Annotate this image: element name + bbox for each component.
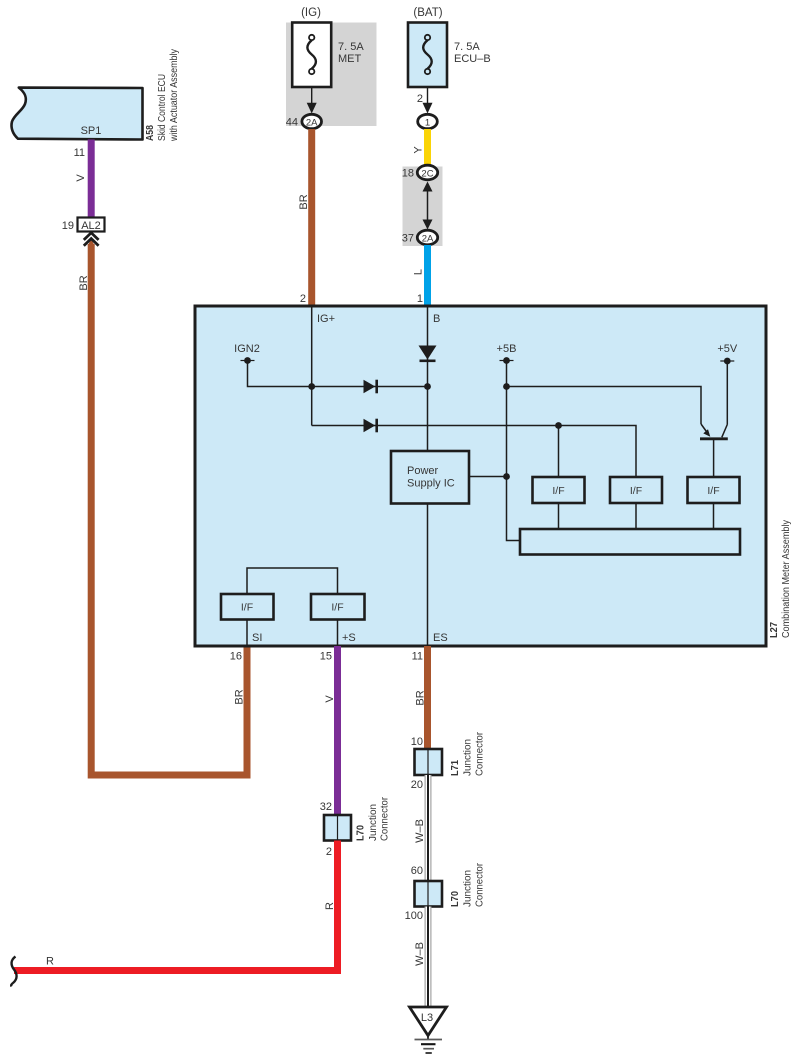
wire V from +S pin 15 — [334, 646, 341, 815]
svg-text:L70: L70 — [355, 825, 367, 841]
connector AL2 pin 19 — [62, 218, 105, 233]
diode D3 on B line — [419, 346, 437, 361]
svg-text:11: 11 — [74, 147, 85, 159]
transistor Q1 — [700, 424, 728, 477]
diode D1 — [364, 380, 377, 394]
wire +5B to transistor base — [507, 387, 702, 425]
svg-text:16: 16 — [230, 651, 242, 663]
svg-text:19: 19 — [62, 220, 74, 232]
junction block gray panel (IG) — [286, 23, 377, 127]
wire second diode row — [312, 426, 636, 478]
svg-text:B: B — [433, 313, 440, 325]
fuse MET 7.5A — [292, 23, 364, 88]
svg-text:7. 5A: 7. 5A — [338, 41, 364, 53]
svg-text:60: 60 — [411, 865, 423, 877]
svg-text:Supply IC: Supply IC — [407, 478, 455, 490]
connector 2A pin 37 — [402, 230, 438, 245]
connector SP1 Skid Control ECU box — [12, 88, 143, 140]
svg-text:(BAT): (BAT) — [413, 7, 442, 19]
wire W-B upper — [425, 775, 432, 881]
svg-text:BR: BR — [234, 689, 246, 704]
svg-text:37: 37 — [402, 233, 414, 245]
label L71 Junction Connector — [449, 732, 485, 776]
svg-text:L3: L3 — [421, 1012, 433, 1024]
svg-text:BR: BR — [298, 194, 310, 209]
svg-text:L70: L70 — [449, 891, 461, 907]
node +5B — [497, 343, 517, 364]
wire BR from MET fuse to IG+ — [308, 129, 315, 306]
svg-text:L27: L27 — [768, 622, 780, 638]
svg-text:2: 2 — [417, 93, 423, 105]
wire +5B vertical — [507, 361, 521, 541]
junction dot on B line — [424, 383, 431, 390]
fuse ECU-B 7.5A — [408, 23, 491, 88]
label A58 Skid Control ECU with Actuator Assembly — [144, 48, 180, 141]
wire R from L70 — [14, 841, 338, 971]
wire link down to second row — [311, 387, 313, 426]
node +5V — [717, 343, 738, 364]
label L27 Combination Meter Assembly — [768, 519, 792, 638]
svg-text:+S: +S — [342, 632, 356, 644]
wire from IGN2 to B line — [248, 361, 428, 387]
wire BR left (from AL2 down and to pin 16) — [88, 239, 247, 776]
svg-text:W–B: W–B — [414, 819, 426, 843]
svg-text:10: 10 — [411, 736, 423, 748]
wire power supply IC to +5B line — [469, 476, 507, 478]
svg-text:ES: ES — [433, 632, 448, 644]
svg-text:32: 32 — [320, 801, 332, 813]
ground symbol — [415, 1036, 443, 1054]
I/F box left 1 — [221, 594, 274, 620]
svg-text:I/F: I/F — [707, 485, 719, 497]
svg-text:ECU–B: ECU–B — [454, 53, 491, 65]
arrows between 2C and 2A — [423, 182, 433, 230]
svg-text:Skid Control ECU: Skid Control ECU — [156, 74, 168, 141]
I/F box 1 — [533, 477, 585, 503]
svg-text:Connector: Connector — [473, 863, 485, 907]
wire ES internal (below power supply IC) — [427, 504, 429, 646]
svg-text:IGN2: IGN2 — [234, 343, 260, 355]
svg-text:with Actuator Assembly: with Actuator Assembly — [168, 48, 180, 141]
svg-text:L71: L71 — [449, 760, 461, 776]
I/F box left 2 — [311, 594, 365, 620]
svg-text:A58: A58 — [144, 125, 156, 141]
svg-text:1: 1 — [425, 117, 430, 128]
svg-text:2A: 2A — [306, 117, 318, 128]
svg-text:I/F: I/F — [331, 602, 343, 614]
svg-text:AL2: AL2 — [81, 220, 101, 232]
svg-text:44: 44 — [286, 117, 298, 129]
junction connector L71 — [415, 749, 443, 775]
svg-text:20: 20 — [411, 779, 423, 791]
I/F box 3 — [688, 477, 740, 503]
svg-text:BR: BR — [415, 690, 427, 705]
wire V from SP1 pin 11 — [88, 140, 95, 218]
svg-text:1: 1 — [417, 293, 423, 305]
junction dot +5B upper — [503, 383, 510, 390]
svg-text:V: V — [324, 695, 336, 703]
junction dot +5B lower — [503, 473, 510, 480]
wire and arrow from fuse MET — [307, 87, 317, 114]
svg-text:100: 100 — [405, 910, 423, 922]
svg-text:(IG): (IG) — [301, 7, 321, 19]
junction connector L70 (lower) — [415, 881, 443, 907]
svg-text:I/F: I/F — [241, 602, 253, 614]
wire IG+ internal — [311, 307, 313, 387]
junction block gray panel 2C/2A — [403, 167, 443, 247]
svg-text:2C: 2C — [421, 168, 433, 179]
node IGN2 — [234, 343, 260, 364]
junction dot branch to I/F 1 — [555, 422, 562, 429]
wire I/F left 2 to +S pin — [337, 620, 339, 646]
svg-text:15: 15 — [320, 651, 332, 663]
label L70 Junction Connector — [449, 863, 485, 907]
svg-text:Junction: Junction — [462, 739, 474, 776]
svg-text:SP1: SP1 — [81, 125, 102, 137]
svg-text:Power: Power — [407, 465, 439, 477]
wire I/F left 1 to SI pin — [246, 620, 248, 646]
svg-text:Junction: Junction — [462, 870, 474, 907]
svg-text:Combination Meter Assembly: Combination Meter Assembly — [780, 519, 792, 638]
I/F box 2 — [610, 477, 662, 503]
ground L3 triangle — [410, 1007, 447, 1036]
connector 2A pin 44 (meter) — [286, 114, 322, 128]
wire W-B lower — [425, 907, 432, 1008]
svg-text:Junction: Junction — [367, 804, 379, 841]
svg-text:2A: 2A — [422, 233, 434, 244]
svg-text:Y: Y — [413, 146, 425, 154]
svg-text:2: 2 — [326, 846, 332, 858]
svg-text:+5B: +5B — [497, 343, 517, 355]
wire +5V vertical — [726, 361, 728, 425]
label L70 Junction Connector — [355, 797, 391, 841]
bus bar — [520, 529, 740, 555]
svg-text:18: 18 — [402, 168, 414, 180]
svg-text:W–B: W–B — [414, 942, 426, 966]
svg-text:7. 5A: 7. 5A — [454, 41, 480, 53]
svg-text:Connector: Connector — [473, 732, 485, 776]
diode D2 — [364, 419, 377, 433]
svg-text:Connector: Connector — [378, 797, 390, 841]
connector 1 — [418, 114, 438, 128]
wire break squiggle — [11, 957, 16, 987]
wires I/F boxes to bus bar — [559, 503, 714, 529]
wire bridge between left I/F boxes — [247, 568, 338, 594]
svg-text:I/F: I/F — [552, 485, 564, 497]
svg-text:IG+: IG+ — [317, 313, 335, 325]
svg-text:V: V — [75, 174, 87, 182]
wire Y — [424, 129, 431, 167]
svg-text:R: R — [46, 956, 54, 968]
wire L — [424, 245, 431, 306]
junction dot on IG+ line — [308, 383, 315, 390]
svg-text:I/F: I/F — [630, 485, 642, 497]
svg-text:11: 11 — [412, 651, 423, 663]
combination meter assembly L27 box — [195, 306, 766, 646]
svg-text:L: L — [413, 269, 425, 275]
wire B internal — [427, 307, 429, 451]
svg-text:BR: BR — [78, 275, 90, 290]
svg-text:+5V: +5V — [717, 343, 738, 355]
svg-text:SI: SI — [252, 632, 262, 644]
wire BR from ES pin 11 — [424, 646, 431, 749]
svg-text:MET: MET — [338, 53, 362, 65]
junction connector L70 (upper) — [324, 815, 351, 841]
connector 2C pin 18 — [402, 165, 438, 180]
wire and arrow from fuse ECU-B — [423, 87, 433, 114]
power supply IC U1 — [391, 451, 469, 504]
svg-text:2: 2 — [300, 293, 306, 305]
chevron continuation symbol — [84, 233, 99, 246]
wire branch down to I/F 1 — [558, 426, 560, 478]
svg-text:R: R — [324, 902, 336, 910]
